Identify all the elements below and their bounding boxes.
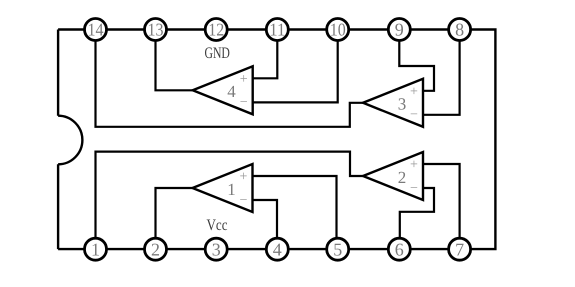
svg-text:7: 7 — [455, 239, 464, 259]
svg-text:2: 2 — [151, 239, 160, 259]
svg-text:+: + — [240, 72, 248, 87]
pin 6 — [388, 238, 410, 260]
pin 7 — [449, 238, 471, 260]
svg-text:11: 11 — [269, 20, 285, 40]
pin 13 — [145, 19, 167, 41]
svg-text:5: 5 — [333, 239, 342, 259]
svg-text:−: − — [240, 95, 248, 110]
svg-text:9: 9 — [395, 20, 404, 40]
pin 1 — [85, 238, 107, 260]
pin 9 — [388, 19, 410, 41]
wire U2 + input to pin7 — [423, 164, 460, 249]
svg-text:2: 2 — [398, 168, 407, 187]
pin 11 — [266, 19, 288, 41]
pin 2 — [145, 238, 167, 260]
svg-text:13: 13 — [148, 20, 164, 40]
pin 12 — [205, 19, 227, 41]
svg-text:4: 4 — [227, 82, 236, 101]
svg-text:14: 14 — [88, 20, 104, 40]
svg-text:+: + — [410, 158, 418, 173]
pin 5 — [327, 238, 349, 260]
svg-text:+: + — [410, 84, 418, 99]
svg-text:10: 10 — [330, 20, 346, 40]
wire U4 + input to pin11 — [253, 30, 278, 78]
svg-text:8: 8 — [455, 20, 464, 40]
svg-text:12: 12 — [208, 20, 224, 40]
IC body outline DIP-14 — [58, 30, 495, 250]
wire pin9 to U3 + input — [399, 30, 434, 91]
pin 10 — [327, 19, 349, 41]
svg-text:1: 1 — [227, 180, 236, 199]
pin 4 — [266, 238, 288, 260]
wire U1 output to pin2 — [156, 188, 193, 249]
wire U2 output to pin1 — [96, 152, 364, 249]
wire U1 + input to pin5 — [253, 176, 337, 249]
wire U3 output to pin14 — [96, 30, 364, 127]
op-amp U2 — [363, 152, 423, 200]
wire U1 - input to pin4 — [253, 200, 278, 249]
svg-text:1: 1 — [91, 239, 100, 259]
pin 3 — [205, 238, 227, 260]
op-amp U3 — [363, 79, 423, 127]
pin 8 — [449, 19, 471, 41]
wire U2 - input to pin6 — [400, 188, 434, 249]
svg-text:3: 3 — [212, 239, 221, 259]
notch — [58, 116, 82, 165]
svg-text:+: + — [240, 170, 248, 185]
svg-text:6: 6 — [395, 239, 404, 259]
svg-text:4: 4 — [273, 239, 282, 259]
svg-text:−: − — [410, 108, 418, 123]
wire U3 - input to pin8 — [423, 30, 460, 115]
svg-text:3: 3 — [398, 95, 407, 114]
svg-text:Vcc: Vcc — [207, 217, 228, 234]
wire U4 - input to pin10 — [253, 30, 338, 102]
pin 14 — [85, 19, 107, 41]
svg-text:−: − — [240, 193, 248, 208]
op-amp U1 — [193, 164, 253, 212]
op-amp U4 — [193, 66, 253, 114]
svg-text:−: − — [410, 181, 418, 196]
svg-text:GND: GND — [204, 45, 230, 62]
wire pin13 to U4 output — [156, 30, 193, 90]
